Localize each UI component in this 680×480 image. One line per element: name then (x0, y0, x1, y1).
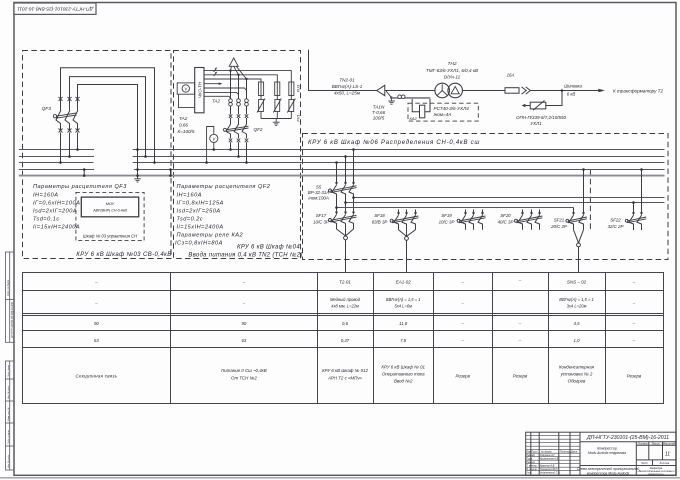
neutral stub and dot (386, 91, 391, 98)
svg-text:ДП-НГТУ-230101-(25-ВМ)-16-2011: ДП-НГТУ-230101-(25-ВМ)-16-2011 (586, 435, 669, 441)
sub-bus line 1 from S5 (354, 197, 665, 199)
QF2 parameters text block (175, 184, 271, 247)
svg-text:0,37: 0,37 (341, 338, 350, 343)
surge arrester FV1-3 (287, 99, 295, 113)
svg-text:–: – (518, 278, 522, 283)
svg-text:Изм: Изм (526, 451, 531, 454)
svg-text:компрессора Mods-Audods: компрессора Mods-Audods (587, 471, 630, 475)
wire ChKO-TN arrow line (204, 83, 221, 85)
page shadow bottom edge (0, 477, 680, 479)
svg-text:90: 90 (94, 321, 99, 326)
switch S5 labels (308, 185, 330, 201)
TA2 ratings text (178, 116, 195, 134)
svg-text:Инв. № подл.: Инв. № подл. (7, 454, 10, 468)
svg-text:ЕА1-02: ЕА1-02 (396, 280, 412, 285)
svg-text:Масштаб: Масштаб (663, 442, 676, 446)
svg-text:FV1: FV1 (295, 114, 300, 121)
svg-text:IСз=0,8хIН=80А: IСз=0,8хIН=80А (175, 241, 223, 247)
left margin stamp boxes group 1 (6, 252, 15, 342)
svg-text:63: 63 (94, 338, 99, 343)
wire ChKO-TN tap line b (to FU3-2) (204, 75, 277, 82)
svg-text:FU3: FU3 (295, 84, 300, 92)
QF3 pole terminal crosses (top) (59, 97, 80, 101)
busbar L2 right segment (133, 156, 665, 158)
SF17 top terminals (arrowheads) (335, 212, 338, 215)
svg-text:КА2: КА2 (410, 116, 418, 121)
svg-text:технологии»: технологии» (648, 473, 665, 476)
breaker SF21 labels (550, 218, 567, 230)
svg-text:Параметры расцепителя QF3: Параметры расцепителя QF3 (33, 184, 127, 190)
SF19 breaker blades (461, 215, 483, 230)
svg-text:ВВГнг(А) = 1,5 = 1: ВВГнг(А) = 1,5 = 1 (559, 297, 594, 302)
S5 pole arrowheads (335, 182, 338, 185)
relay KA2 secondary loop (412, 99, 430, 112)
svg-text:Масса: Масса (652, 442, 660, 446)
svg-text:SF21: SF21 (554, 218, 565, 223)
wire ChKO-TN tap line c (to FU3-1) (204, 79, 261, 82)
SF18 cable funnel and connector (399, 230, 416, 241)
current transformer TA2 (3 CT turns) (229, 99, 249, 106)
table row 5: destinations (75, 365, 641, 384)
SF21 right pole feed from N bus (583, 170, 585, 214)
svg-text:5х4 L=6м: 5х4 L=6м (394, 304, 412, 309)
svg-text:Tsd=0.2c: Tsd=0.2c (177, 217, 204, 223)
table row 3: load values (94, 321, 636, 326)
svg-text:ДП-НГТУ-230101-(25-ВМ)-16-2011: ДП-НГТУ-230101-(25-ВМ)-16-2011 (17, 6, 94, 12)
wire: bus-tie loop outer (pole A) (61, 68, 155, 163)
svg-text:Параметры реле КА2: Параметры реле КА2 (177, 233, 244, 239)
wire ChKO-TN secondary line 1 (204, 88, 247, 91)
cable EA1-02 down to table (406, 240, 408, 272)
svg-text:КРУ 6 кВ Шкаф №06 Распред: КРУ 6 кВ Шкаф №06 Распределения СН-0,4кВ… (308, 139, 480, 146)
svg-text:SF17: SF17 (316, 213, 327, 218)
svg-text:40/С 3Р: 40/С 3Р (498, 220, 514, 225)
svg-text:Конденсаторная: Конденсаторная (559, 365, 595, 370)
QF3 pole terminal crosses (bottom) (59, 129, 80, 133)
N-PE link at x=170.4 (170, 170, 172, 176)
svg-text:–: – (94, 280, 98, 285)
voltmeter PV2 wiring (207, 127, 214, 163)
svg-text:ВВГнг(А)-LS-1: ВВГнг(А)-LS-1 (332, 84, 363, 89)
svg-text:установка № 2: установка № 2 (560, 372, 593, 377)
SF21 left pole feed from sub-bus 3 (573, 208, 575, 214)
svg-text:Iном:100А: Iном:100А (308, 196, 329, 201)
svg-text:D/Ун-11: D/Ун-11 (444, 75, 461, 80)
SECTION: feeder data table (23, 273, 664, 404)
svg-text:Tsd=0.1c: Tsd=0.1c (33, 217, 60, 223)
svg-text:–: – (242, 280, 246, 285)
svg-text:ОПН-П/339-6/7,2/10/550: ОПН-П/339-6/7,2/10/550 (516, 115, 567, 120)
relay KA2 dashed enclosure (408, 103, 478, 121)
table row 4: current values (94, 338, 636, 343)
svg-text:КРУ 6 кВ Шкаф №04: КРУ 6 кВ Шкаф №04 (237, 243, 300, 250)
SF21 tie bar and hinge (566, 217, 587, 223)
svg-text:IН=160А: IН=160А (177, 193, 202, 199)
svg-text:МОУ: МОУ (106, 201, 115, 206)
svg-text:Взам. инв. №: Взам. инв. № (7, 407, 10, 421)
wire: bus-tie loop middle (pole B) (70, 77, 146, 157)
svg-text:SF19: SF19 (441, 213, 452, 218)
svg-text:Оперативного тока: Оперативного тока (382, 372, 425, 377)
cable termination arrow (open triangle) (377, 85, 385, 95)
SF21 breaker blades (569, 215, 584, 230)
svg-text:1,0: 1,0 (574, 338, 581, 343)
svg-text:ТН2: ТН2 (447, 61, 456, 67)
svg-text:Подпись: Подпись (560, 451, 571, 454)
MOU AVR device rectangle (81, 197, 138, 217)
svg-text:ТМГ-63/6-УХЛ1, 6/0,4 кВ: ТМГ-63/6-УХЛ1, 6/0,4 кВ (426, 68, 478, 73)
breaker SF19 labels (439, 213, 455, 225)
voltmeter PV1 box (177, 83, 195, 94)
star winding symbol (437, 84, 447, 95)
svg-text:Обогрев: Обогрев (568, 379, 586, 384)
svg-text:20/С 2Р: 20/С 2Р (550, 224, 567, 229)
svg-text:SF22: SF22 (610, 218, 621, 223)
svg-text:–: – (460, 280, 464, 285)
svg-text:90: 90 (242, 321, 247, 326)
svg-text:Isd=2хIГ=200А: Isd=2хIГ=200А (33, 209, 77, 215)
sub-bus line 2 from S5 (346, 202, 665, 204)
wire: inner loop continuation to N/PE + ground (137, 150, 139, 176)
svg-text:4,5: 4,5 (574, 321, 581, 326)
breaker SF22 labels (608, 218, 624, 230)
svg-text:–: – (632, 280, 636, 285)
svg-text:SF18: SF18 (374, 213, 385, 218)
6kV fuse (505, 88, 519, 94)
svg-text:ВР-32-31А: ВР-32-31А (308, 190, 330, 195)
SF20 tie bar and hinge (515, 216, 543, 223)
SF18 tie bar and hinge (390, 216, 418, 223)
svg-text:Ii=15хIН=2400А: Ii=15хIН=2400А (33, 225, 80, 231)
left margin stamp boxes group 2 (6, 361, 15, 470)
svg-text:Лист: Лист (530, 451, 537, 454)
TN2 labels (426, 61, 478, 80)
S5 tie bar and hinge (329, 186, 357, 193)
fan wires from triangle to phase columns (231, 66, 247, 79)
svg-text:РСТ40-3/6-УХЛ4: РСТ40-3/6-УХЛ4 (434, 106, 470, 111)
svg-text:4х50, L=25м: 4х50, L=25м (334, 91, 361, 96)
sub-bus line 3 from S5 (337, 207, 574, 209)
svg-text:К трансформатору Т2: К трансформатору Т2 (613, 88, 663, 93)
svg-text:От ТСН №2: От ТСН №2 (231, 376, 257, 381)
SF22 breaker blades (629, 215, 642, 230)
OPN earth arrow (524, 105, 530, 107)
svg-text:63/В 3Р: 63/В 3Р (372, 220, 388, 225)
svg-text:Согл. № докум.: Согл. № докум. (7, 279, 10, 296)
wire to T2 with arrow (530, 90, 599, 92)
SF18 feed arrows (399, 210, 416, 214)
svg-text:IГ=0,8хIН=125А: IГ=0,8хIН=125А (177, 201, 224, 207)
svg-text:Листов: Листов (658, 461, 669, 465)
svg-text:Ввод №2: Ввод №2 (394, 379, 413, 384)
SF17 breaker blades (332, 215, 354, 230)
svg-text:63: 63 (242, 338, 247, 343)
SF19 tie bar and hinge (457, 216, 485, 223)
fuse FU3-1 (259, 82, 264, 96)
svg-text:100/5: 100/5 (373, 116, 385, 121)
svg-text:Кривоногов А.В.: Кривоногов А.В. (540, 458, 559, 461)
breaker SF20 labels (498, 213, 514, 225)
PE triangle symbol above TN phases (229, 58, 238, 66)
delta winding symbol (451, 87, 459, 94)
svg-text:16А: 16А (507, 73, 515, 78)
surge arrester FV1-2 (273, 99, 281, 113)
document number box (top-left, text rotated 180) (14, 3, 96, 14)
polarity arrows on tap lines (214, 68, 217, 76)
svg-text:АВР(ВНР) СН-0,4кВ: АВР(ВНР) СН-0,4кВ (92, 209, 127, 213)
SF21 cable funnel and connector (574, 230, 584, 247)
sub-bus tap dots (335, 196, 355, 209)
svg-text:SNS – 02: SNS – 02 (567, 280, 587, 285)
ground of arrester bank (273, 122, 280, 125)
svg-text:Лист: Лист (640, 461, 649, 465)
svg-text:Компрессор: Компрессор (597, 447, 617, 451)
busbar L1 left segment (19, 149, 94, 151)
svg-text:IН=160А: IН=160А (33, 193, 58, 199)
busbar L1 right segment (133, 149, 665, 151)
junction dots on tap lines (229, 69, 247, 80)
fuse FU3-2 (275, 82, 280, 96)
SF22 left pole feed from sub-bus 2 (633, 203, 635, 214)
QF3 breaker poles (blades) (56, 110, 78, 131)
QF3 tie bar (double line) and hinge circle (53, 113, 76, 118)
SF19 feed arrows (466, 210, 483, 214)
svg-text:QF3: QF3 (42, 106, 52, 112)
svg-text:Iном=4А: Iном=4А (434, 112, 452, 117)
SF17 tie bar and hinge (329, 215, 357, 222)
svg-text:Литера: Литера (636, 442, 648, 446)
svg-text:S5: S5 (316, 185, 322, 190)
voltmeter PV1 (182, 85, 189, 92)
left signature rows (526, 451, 578, 475)
wire ChKO-TN secondary line 2 (204, 92, 239, 94)
svg-text:IГ=0,6хIН=100А: IГ=0,6хIН=100А (33, 201, 80, 207)
svg-text:Дата: Дата (570, 451, 578, 454)
svg-text:Параметры расцепителя QF2: Параметры расцепителя QF2 (177, 184, 271, 190)
table row 2: cable data (94, 297, 636, 309)
svg-text:Подп. и дата: Подп. и дата (7, 430, 10, 444)
voltage transformer unit ChKO-TN (195, 68, 204, 113)
QF3 parameters text block (33, 184, 127, 231)
cable SNS-02 down to table (578, 247, 580, 272)
svg-text:Секционная связь: Секционная связь (75, 374, 117, 379)
wire riser TN2-01 to cabinet (309, 50, 377, 91)
wire ChKO-TN tap line a (to FU3-3) (204, 71, 291, 82)
svg-text:Подп. дата: Подп. дата (7, 364, 10, 377)
wire voltmeter loop to ChKO-TN (179, 94, 195, 107)
junction dots QF3/loops on buses (59, 148, 156, 177)
QF2 tie bar and hinge circle (224, 126, 249, 131)
busbar N left segment (19, 169, 94, 171)
svg-text:Андреевский С.А.: Андреевский С.А. (539, 472, 561, 475)
svg-text:Утв.: Утв. (526, 472, 532, 475)
breaker SF17 labels (313, 213, 329, 225)
svg-text:Шкаф № 03 управления СН: Шкаф № 03 управления СН (83, 233, 138, 238)
svg-text:Ii=15хIН=2400А: Ii=15хIН=2400А (177, 225, 224, 231)
svg-text:Isd=2хIГ=250А: Isd=2хIГ=250А (177, 209, 221, 215)
cable TN2-01 label (332, 78, 363, 96)
SECTION: title block (GOST stamp) (526, 432, 676, 475)
surge arrester OPN branch wire (546, 91, 562, 106)
cabinet box KRU Shkaf No03 (dashed) (23, 51, 172, 259)
svg-text:АРН Т2 с «МПч»: АРН Т2 с «МПч» (327, 376, 363, 381)
wire ChKO-TN secondary line 3 (204, 96, 231, 98)
SF22 tie bar and hinge (625, 217, 646, 223)
S5 switch blades (332, 185, 354, 212)
svg-text:Резерв: Резерв (627, 374, 642, 379)
fuse FU3-3 (289, 82, 294, 96)
svg-text:КРУ 6 кВ Шкаф №03 СВ-0,4к: КРУ 6 кВ Шкаф №03 СВ-0,4кВ (76, 251, 171, 258)
QF2 breaker poles (blades) (226, 118, 246, 139)
svg-text:Резерв: Резерв (455, 374, 470, 379)
current transformer TA1N turns (398, 95, 405, 99)
QF2 pole terminal crosses (top) (229, 114, 249, 118)
QF2 pole terminal crosses (bottom) (229, 139, 249, 143)
MOU AVR inner dashed box (76, 192, 144, 240)
svg-text:ТN2-01: ТN2-01 (339, 78, 355, 83)
svg-text:Т-0,66: Т-0,66 (372, 110, 386, 115)
svg-text:ВВГнг(А) = 1,5 = 1: ВВГнг(А) = 1,5 = 1 (386, 297, 421, 302)
SF20 feed arrows (523, 210, 540, 214)
svg-text:SF20: SF20 (500, 213, 511, 218)
cabinet box KRU Shkaf No06 (dashed) (303, 134, 669, 260)
svg-text:Ввода питания 0,4 кВ ТN2 (ТСН: Ввода питания 0,4 кВ ТN2 (ТСН №2) (188, 251, 302, 258)
svg-text:0,6: 0,6 (342, 321, 349, 326)
svg-text:4х8 мм, L=22м: 4х8 мм, L=22м (331, 304, 359, 309)
TA1N label block (372, 105, 386, 121)
svg-text:№ докум.: № докум. (541, 451, 552, 454)
svg-text:ТА2: ТА2 (179, 116, 188, 121)
svg-text:Mods-Audods нефрегаза: Mods-Audods нефрегаза (588, 451, 626, 455)
transformer TN2 (two circles) (435, 83, 450, 98)
svg-text:10/С 3Р: 10/С 3Р (439, 220, 455, 225)
svg-text:QF2: QF2 (254, 127, 263, 132)
internal dashed partition in box No06 (589, 170, 591, 232)
surge arrester OPN (530, 101, 546, 111)
SF20 breaker blades (518, 215, 540, 230)
arrester common earth wire (261, 112, 291, 123)
voltmeter PV2 (210, 134, 218, 142)
cabinet box KRU Shkaf No04 (dashed) (174, 51, 301, 259)
svg-text:ЧКО-ТН: ЧКО-ТН (197, 81, 202, 98)
svg-text:11: 11 (665, 452, 670, 458)
wire transformer to fuse (463, 90, 506, 92)
busbar PE (continuous, thick) (19, 175, 665, 177)
busbar N right segment (134, 169, 665, 171)
surge arrester FV1-1 (257, 99, 265, 113)
table row 1: feeder designations (94, 278, 636, 285)
svg-text:ТА2: ТА2 (212, 99, 220, 104)
svg-text:УХЛ1: УХЛ1 (530, 121, 542, 126)
svg-text:ДП-НГТУ-230101-(25-ВМ)-16-2011: ДП-НГТУ-230101-(25-ВМ)-16-2011 (12, 301, 14, 339)
busbar L3 left segment (19, 162, 94, 164)
SF22 right pole feed from N bus (641, 170, 643, 214)
svg-text:ТА1N: ТА1N (373, 105, 385, 110)
svg-text:6 кВ: 6 кВ (567, 91, 576, 96)
cable T2-01 down to table (345, 240, 347, 272)
svg-text:КРУ 6 кВ Шкаф № 012: КРУ 6 кВ Шкаф № 012 (322, 368, 369, 373)
SF18 breaker blades (394, 215, 416, 230)
S5 feed wires from buses (337, 150, 354, 184)
svg-text:К=100/5: К=100/5 (178, 129, 195, 134)
svg-text:Инв. № дубл.: Инв. № дубл. (7, 385, 10, 399)
busbar L3 right segment (133, 162, 665, 164)
svg-text:32/С 2Р: 32/С 2Р (608, 224, 624, 229)
relay KA2 coil (420, 105, 425, 118)
svg-text:Медный провод: Медный провод (330, 297, 361, 302)
wire TN2 line to transformer (385, 90, 435, 92)
busbar L2 left segment (19, 156, 94, 158)
N-PE link at x=84 (83, 170, 85, 176)
svg-text:КРУ 6 кВ Шкаф № 01: КРУ 6 кВ Шкаф № 01 (381, 365, 425, 370)
disconnector chevrons (522, 87, 531, 94)
ground at bus x=137.5 (134, 176, 141, 182)
svg-text:–: – (461, 321, 465, 326)
svg-text:3х4 L=20м: 3х4 L=20м (567, 304, 587, 309)
ground at TA1N (388, 98, 395, 105)
svg-text:0,66: 0,66 (179, 123, 188, 128)
svg-text:–: – (461, 338, 465, 343)
svg-text:10/С 3Р: 10/С 3Р (313, 220, 329, 225)
svg-text:Резерв: Резерв (513, 374, 528, 379)
breaker SF18 labels (372, 213, 388, 225)
SF17 cable funnel and connector (337, 229, 354, 240)
svg-text:Шиновка: Шиновка (564, 83, 582, 88)
wires QF2 to buses (231, 142, 247, 162)
svg-text:11,8: 11,8 (399, 321, 408, 326)
wires QF3 to left bus section (61, 133, 78, 163)
wire: bus-tie loop inner (pole C) (78, 85, 138, 150)
svg-text:Питание II Сш ~0,4кВ: Питание II Сш ~0,4кВ (221, 368, 267, 373)
TA1N secondary conductor (thick) (392, 97, 431, 99)
svg-text:Т2-01: Т2-01 (339, 280, 351, 285)
svg-text:7,8: 7,8 (400, 338, 407, 343)
phase columns through TA2 down to QF2 (231, 71, 247, 115)
